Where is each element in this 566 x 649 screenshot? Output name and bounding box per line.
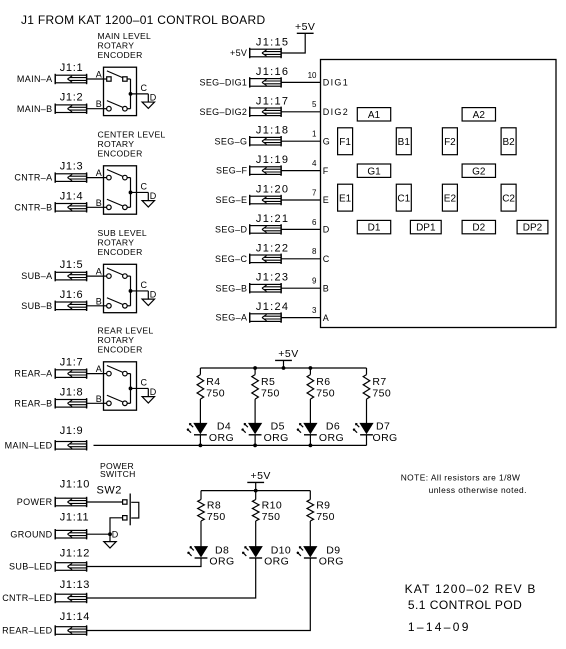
junction [253,444,257,448]
svg-text:REAR–LED: REAR–LED [2,626,52,636]
wire J1:7 to encoder [87,373,104,375]
wire D8 cathode to SUB-LED [87,558,201,567]
svg-text:D4: D4 [217,421,231,433]
svg-text:MAIN–A: MAIN–A [17,74,53,84]
svg-text:+5V: +5V [230,48,247,58]
wire R5 to D5 [254,399,256,423]
wire J1:19 to display pin 4 [281,170,320,172]
resistor R10 750 [252,491,282,521]
segment DP1 [410,220,441,233]
wire J1:2 to encoder [87,108,104,110]
svg-text:9: 9 [312,277,317,286]
svg-text:CNTR–A: CNTR–A [14,173,52,183]
wire common [130,178,132,208]
wire C to ground [131,94,149,102]
title block text [405,582,537,634]
svg-text:R9: R9 [316,500,330,512]
svg-text:SUB LEVEL: SUB LEVEL [98,228,148,238]
svg-text:G: G [323,136,331,146]
rotary encoder body (MAIN LEVEL) [104,67,137,115]
svg-text:SW2: SW2 [97,485,122,497]
switch contacts and wiper [104,101,131,111]
junction common node C [129,92,133,96]
switch contacts and wiper [104,268,131,278]
wire R6 to D6 [309,399,311,423]
svg-text:J1:8: J1:8 [60,386,84,398]
wire R4 to D4 [199,399,201,423]
junction [309,366,313,370]
wire common [130,79,132,109]
connector pin J1:10 [55,497,86,507]
connector pin J1:8 [55,398,86,408]
junction node D [108,532,112,536]
svg-text:ENCODER: ENCODER [98,149,143,159]
svg-text:B: B [96,296,102,306]
wire J1:22 to display pin 8 [281,258,320,260]
segment G2 [462,164,495,177]
svg-text:MAIN–LED: MAIN–LED [5,440,53,450]
svg-text:DP2: DP2 [523,223,543,234]
connector pin J1:14 [55,625,86,635]
svg-text:ROTARY: ROTARY [98,238,135,248]
wire POWER to SW2 [87,501,123,503]
svg-text:ORG: ORG [209,555,234,567]
LED D9 ORG [297,544,340,558]
svg-text:MAIN LEVEL: MAIN LEVEL [98,31,152,41]
ground [142,397,154,403]
label REAR LEVEL ROTARY ENCODER [98,326,154,355]
svg-text:CENTER LEVEL: CENTER LEVEL [98,130,166,140]
segment C1 [396,184,411,211]
svg-text:8: 8 [312,247,317,256]
svg-text:J1:12: J1:12 [60,548,90,560]
wire D7 cathode [366,435,368,446]
junction [199,444,203,448]
svg-text:ORG: ORG [373,432,398,444]
svg-text:ORG: ORG [264,555,289,567]
connector pin J1:18 [250,136,281,146]
wire D6 cathode [309,435,311,446]
svg-text:R6: R6 [316,376,330,388]
svg-text:J1:7: J1:7 [60,357,84,369]
svg-text:D6: D6 [326,421,340,433]
ground [104,542,116,548]
svg-text:J1:4: J1:4 [60,190,84,202]
svg-text:D7: D7 [376,421,390,433]
svg-text:unless otherwise noted.: unless otherwise noted. [429,485,527,495]
wire D10 cathode to CNTR-LED [87,558,256,598]
svg-text:G2: G2 [472,166,486,177]
svg-text:+5V: +5V [278,348,298,360]
wire C to ground [131,291,149,299]
segment A2 [462,108,495,121]
svg-text:NOTE: All resistors are 1/8W: NOTE: All resistors are 1/8W [401,472,521,482]
svg-text:C2: C2 [502,193,515,204]
svg-text:J1:10: J1:10 [60,479,90,491]
svg-text:J1:22: J1:22 [256,242,289,254]
svg-text:J1:16: J1:16 [256,66,289,78]
connector pin J1:17 [250,107,281,117]
svg-text:J1:14: J1:14 [60,611,90,623]
ground [142,102,154,108]
svg-text:POWER: POWER [17,497,53,507]
connector pin J1:21 [250,224,281,234]
svg-text:J1:19: J1:19 [256,154,289,166]
svg-text:J1:1: J1:1 [60,62,84,74]
label POWER SWITCH [100,461,136,479]
svg-text:SUB–B: SUB–B [21,301,52,311]
svg-text:SEG–F: SEG–F [216,166,247,176]
wire C to ground [131,192,149,200]
svg-text:B: B [323,283,330,293]
svg-text:+5V: +5V [295,21,315,33]
connector pin J1:23 [250,283,281,293]
svg-text:4: 4 [312,159,317,168]
svg-text:F: F [323,166,330,176]
connector pin J1:19 [250,165,281,175]
junction common node C [129,191,133,195]
svg-text:REAR–B: REAR–B [14,398,52,408]
svg-text:DIG1: DIG1 [323,78,349,88]
wire J1:17 to display pin 5 [281,111,320,113]
connector pin J1:22 [250,254,281,264]
svg-text:750: 750 [206,387,225,399]
svg-text:J1:13: J1:13 [60,579,90,591]
+5V rail (bottom LED network) [201,490,310,492]
svg-text:D: D [150,191,157,201]
svg-text:GROUND: GROUND [10,529,52,539]
svg-text:J1:15: J1:15 [256,37,289,49]
switch contacts and wiper [104,395,131,405]
svg-text:D: D [150,92,157,102]
wire J1:24 to display pin 3 [281,317,320,319]
LED D4 ORG [187,421,231,435]
svg-text:3: 3 [312,306,317,315]
svg-text:ROTARY: ROTARY [98,139,135,149]
wire J1:6 to encoder [87,305,104,307]
wire SW2 to ground node [110,518,123,534]
svg-text:D2: D2 [472,223,485,234]
segment D1 [357,220,390,233]
svg-text:1–14–09: 1–14–09 [408,620,471,634]
svg-text:J1:11: J1:11 [60,512,90,524]
svg-text:SEG–G: SEG–G [215,136,248,146]
svg-text:750: 750 [261,387,280,399]
svg-text:J1:20: J1:20 [256,184,289,196]
LED D7 ORG [353,421,390,435]
svg-text:A: A [96,70,102,80]
+5V power symbol [275,348,299,360]
svg-text:REAR–A: REAR–A [14,369,52,379]
segment B2 [501,128,516,155]
svg-text:J1:2: J1:2 [60,92,84,104]
svg-text:ORG: ORG [209,432,234,444]
wire +5V feed [283,360,285,368]
svg-text:D: D [150,387,157,397]
svg-text:R4: R4 [206,376,220,388]
ground [142,299,154,305]
+5V power symbol [247,470,271,482]
svg-text:A: A [96,168,102,178]
svg-text:G1: G1 [367,166,381,177]
svg-text:A: A [96,267,102,277]
svg-text:SEG–A: SEG–A [216,313,248,323]
label CENTER LEVEL ROTARY ENCODER [98,130,166,159]
wire common [130,276,132,306]
wire J1:20 to display pin 7 [281,199,320,201]
LED D10 ORG [243,544,292,558]
svg-text:F2: F2 [444,137,456,148]
svg-text:D: D [112,530,119,540]
svg-text:E2: E2 [444,193,457,204]
svg-text:DIG2: DIG2 [323,107,349,117]
svg-text:ENCODER: ENCODER [98,50,143,60]
segment E2 [442,184,457,211]
svg-text:KAT 1200–02 REV B: KAT 1200–02 REV B [405,582,537,596]
connector pin J1:15 [250,48,281,58]
switch contacts and wiper [104,71,131,81]
connector pin J1:16 [250,77,281,87]
svg-text:C: C [141,280,148,290]
connector pin J1:11 [55,529,86,539]
wire J1:16 to display pin 10 [281,81,320,83]
svg-text:D: D [323,225,331,235]
resistor R4 750 [197,368,220,399]
junction common node C [129,289,133,293]
wire J1:18 to display pin 1 [281,140,320,142]
svg-text:7: 7 [312,188,317,197]
connector pin J1:3 [55,172,86,182]
pushbutton SW2 [123,494,139,526]
wire J1:1 to encoder [87,78,104,80]
segment G1 [357,164,390,177]
resistor R6 750 [307,368,330,399]
svg-text:SEG–DIG1: SEG–DIG1 [199,78,247,88]
LED D6 ORG [297,421,340,435]
svg-text:C: C [141,182,148,192]
rotary encoder body (CENTER LEVEL) [104,166,137,214]
wire J1:15 to +5V [281,33,305,53]
segment DP2 [517,220,548,233]
segment C2 [501,184,516,211]
svg-text:J1:6: J1:6 [60,289,84,301]
svg-text:R7: R7 [372,376,386,388]
wire common [130,374,132,404]
connector pin J1:20 [250,195,281,205]
svg-text:C: C [141,83,148,93]
svg-text:E: E [323,195,330,205]
connector pin J1:6 [55,301,86,311]
svg-text:J1:3: J1:3 [60,161,84,173]
wire MAIN-LED rail [94,444,367,446]
switch contacts and wiper [104,199,131,209]
junction [282,366,286,370]
svg-text:F1: F1 [339,137,351,148]
svg-text:SEG–D: SEG–D [215,225,247,235]
display module body [321,60,557,328]
svg-text:B: B [96,99,102,109]
switch contacts and wiper [104,170,131,180]
svg-text:B2: B2 [502,137,515,148]
svg-text:A: A [96,364,102,374]
svg-text:J1 FROM KAT 1200–01 CONTROL BO: J1 FROM KAT 1200–01 CONTROL BOARD [21,13,265,27]
svg-text:6: 6 [312,218,317,227]
wire R7 to D7 [366,399,368,423]
wire J1:3 to encoder [87,177,104,179]
svg-text:750: 750 [316,511,335,523]
wire D5 cathode [254,435,256,446]
svg-text:D5: D5 [271,421,285,433]
svg-text:+5V: +5V [250,470,270,482]
resistor R5 750 [252,368,275,399]
junction [254,489,258,493]
svg-text:SEG–DIG2: SEG–DIG2 [199,107,247,117]
svg-text:SEG–C: SEG–C [215,254,247,264]
+5V rail (top LED network) [200,367,366,369]
wire C to ground [131,388,149,396]
wire +5V feed [255,482,257,490]
connector pin J1:24 [250,312,281,322]
svg-text:J1:9: J1:9 [60,425,84,437]
svg-text:R8: R8 [207,500,221,512]
svg-text:E1: E1 [339,193,352,204]
svg-text:750: 750 [316,387,335,399]
wire J1:21 to display pin 6 [281,228,320,230]
wire R10 to D10 [255,521,257,547]
svg-text:750: 750 [262,511,281,523]
junction [309,444,313,448]
+5V power symbol [295,21,315,33]
switch contacts and wiper [104,298,131,308]
svg-text:CNTR–B: CNTR–B [14,202,52,212]
svg-text:ORG: ORG [319,432,344,444]
svg-text:ORG: ORG [264,432,289,444]
ground [142,201,154,207]
svg-text:J1:18: J1:18 [256,125,289,137]
switch contacts and wiper [104,366,131,376]
svg-text:1: 1 [312,130,317,139]
segment A1 [357,108,390,121]
connector pin J1:7 [55,368,86,378]
wire D4 cathode [199,435,201,446]
LED D5 ORG [242,421,285,435]
resistor R8 750 [198,491,221,521]
junction [253,366,257,370]
svg-text:ENCODER: ENCODER [98,247,143,257]
svg-text:750: 750 [372,387,391,399]
connector pin J1:9 [55,440,86,450]
svg-text:SEG–E: SEG–E [216,195,248,205]
svg-text:B: B [96,394,102,404]
resistor R9 750 [307,491,330,521]
wire J1:8 to encoder [87,402,104,404]
svg-text:CNTR–LED: CNTR–LED [2,593,52,603]
segment F2 [442,128,457,155]
svg-text:A1: A1 [368,110,381,121]
wire R8 to D8 [200,521,202,547]
svg-text:SEG–B: SEG–B [216,283,248,293]
svg-text:D1: D1 [368,223,381,234]
svg-text:J1:21: J1:21 [256,213,289,225]
svg-text:R5: R5 [261,376,275,388]
svg-text:C: C [323,254,331,264]
svg-text:5: 5 [312,100,317,109]
svg-text:ROTARY: ROTARY [98,335,135,345]
connector pin J1:5 [55,271,86,281]
wire R9 to D9 [309,521,311,547]
svg-text:D: D [150,290,157,300]
rotary encoder body (REAR LEVEL) [104,362,137,410]
rotary encoder body (SUB LEVEL) [104,264,137,312]
segment E1 [338,184,353,211]
wire to ground [109,534,111,541]
LED D8 ORG [188,544,229,558]
svg-text:10: 10 [308,71,317,80]
connector pin J1:4 [55,202,86,212]
svg-text:ROTARY: ROTARY [98,40,135,50]
connector pin J1:2 [55,104,86,114]
svg-text:SUB–A: SUB–A [21,271,52,281]
svg-text:750: 750 [207,511,226,523]
connector pin J1:12 [55,561,86,571]
svg-text:J1:17: J1:17 [256,95,289,107]
svg-text:B: B [96,198,102,208]
connector pin J1:13 [55,593,86,603]
svg-text:C1: C1 [397,193,410,204]
svg-text:SUB–LED: SUB–LED [9,562,53,572]
svg-text:DP1: DP1 [416,223,436,234]
connector pin J1:1 [55,74,86,84]
svg-text:R10: R10 [262,500,282,512]
svg-text:ENCODER: ENCODER [98,345,143,355]
junction common node C [129,387,133,391]
svg-text:ORG: ORG [319,555,344,567]
label SUB LEVEL ROTARY ENCODER [98,228,148,257]
wire GROUND [87,533,110,535]
svg-text:MAIN–B: MAIN–B [17,104,53,114]
wire J1:4 to encoder [87,206,104,208]
wire D9 cathode to REAR-LED [87,558,311,631]
svg-text:B1: B1 [398,137,411,148]
svg-text:J1:24: J1:24 [256,301,289,313]
svg-text:REAR LEVEL: REAR LEVEL [98,326,154,336]
wire J1:23 to display pin 9 [281,287,320,289]
segment D2 [462,220,495,233]
svg-text:A2: A2 [473,110,486,121]
segment B1 [396,128,411,155]
svg-text:A: A [323,313,330,323]
label MAIN LEVEL ROTARY ENCODER [98,31,152,60]
svg-text:J1:23: J1:23 [256,272,289,284]
note text [401,472,527,495]
wire J1:5 to encoder [87,275,104,277]
svg-text:5.1 CONTROL POD: 5.1 CONTROL POD [408,598,522,612]
svg-text:C: C [141,378,148,388]
svg-text:J1:5: J1:5 [60,259,84,271]
segment F1 [338,128,353,155]
resistor R7 750 [363,368,386,399]
svg-text:SWITCH: SWITCH [100,469,136,479]
